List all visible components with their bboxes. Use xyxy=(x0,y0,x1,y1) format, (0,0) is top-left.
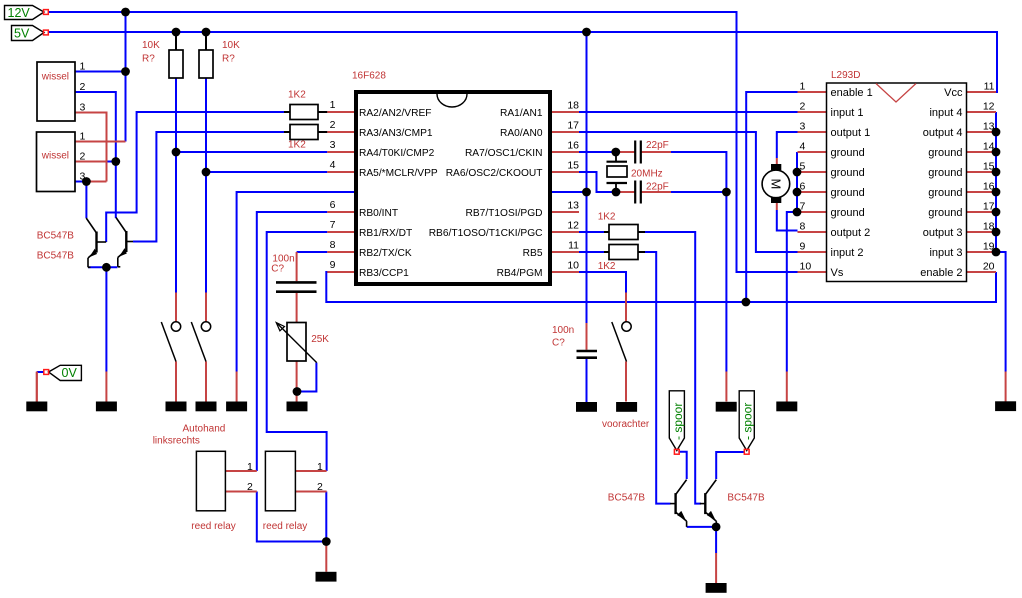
svg-text:4: 4 xyxy=(800,141,806,153)
svg-text:ground: ground xyxy=(928,167,962,179)
svg-text:RB6/T1OSO/T1CKI/PGC: RB6/T1OSO/T1CKI/PGC xyxy=(429,228,543,239)
svg-text:BC547B: BC547B xyxy=(727,493,765,504)
svg-text:output 4: output 4 xyxy=(923,127,963,139)
svg-text:16: 16 xyxy=(983,181,995,193)
svg-text:18: 18 xyxy=(983,221,995,233)
svg-text:RB3/CCP1: RB3/CCP1 xyxy=(359,268,409,279)
svg-text:C?: C? xyxy=(271,264,284,275)
svg-text:17: 17 xyxy=(983,201,995,213)
svg-text:17: 17 xyxy=(567,120,579,132)
svg-text:reed relay: reed relay xyxy=(263,521,307,532)
svg-text:output 1: output 1 xyxy=(831,127,871,139)
svg-text:- spoor: - spoor xyxy=(671,403,685,440)
svg-text:output 2: output 2 xyxy=(831,227,871,239)
svg-text:Autohand: Autohand xyxy=(183,424,226,435)
svg-text:ground: ground xyxy=(928,207,962,219)
svg-text:7: 7 xyxy=(800,201,806,213)
svg-text:19: 19 xyxy=(983,241,995,253)
svg-text:- spoor: - spoor xyxy=(741,403,755,440)
svg-text:15: 15 xyxy=(983,161,995,173)
svg-text:15: 15 xyxy=(567,160,579,172)
svg-text:1K2: 1K2 xyxy=(598,261,616,272)
svg-text:ground: ground xyxy=(831,187,865,199)
svg-text:2: 2 xyxy=(800,101,806,113)
svg-text:9: 9 xyxy=(330,259,336,271)
svg-text:22pF: 22pF xyxy=(646,140,669,151)
svg-text:linksrechts: linksrechts xyxy=(153,436,200,447)
svg-text:11: 11 xyxy=(984,81,995,93)
svg-text:10: 10 xyxy=(800,261,812,273)
svg-text:10K: 10K xyxy=(222,40,240,51)
svg-text:18: 18 xyxy=(567,100,579,112)
svg-text:20: 20 xyxy=(983,261,995,273)
svg-text:6: 6 xyxy=(800,181,806,193)
svg-text:ground: ground xyxy=(831,207,865,219)
svg-text:wissel: wissel xyxy=(41,72,69,83)
svg-text:ground: ground xyxy=(831,167,865,179)
svg-text:10: 10 xyxy=(567,260,579,272)
svg-text:5V: 5V xyxy=(14,26,30,40)
svg-text:10K: 10K xyxy=(142,40,160,51)
svg-text:BC547B: BC547B xyxy=(608,493,646,504)
svg-text:1: 1 xyxy=(330,99,336,111)
svg-text:0V: 0V xyxy=(62,366,78,380)
svg-text:8: 8 xyxy=(800,221,806,233)
svg-text:ground: ground xyxy=(831,147,865,159)
svg-text:2: 2 xyxy=(247,481,253,493)
svg-text:11: 11 xyxy=(568,240,579,252)
svg-text:100n: 100n xyxy=(552,325,574,336)
svg-text:12V: 12V xyxy=(8,6,31,20)
svg-text:Vcc: Vcc xyxy=(944,87,963,99)
svg-text:RB0/INT: RB0/INT xyxy=(359,208,398,219)
svg-text:L293D: L293D xyxy=(831,70,860,81)
svg-text:ground: ground xyxy=(928,187,962,199)
svg-text:ground: ground xyxy=(928,147,962,159)
svg-text:3: 3 xyxy=(80,102,86,114)
svg-text:M: M xyxy=(769,178,784,189)
svg-text:2: 2 xyxy=(80,81,86,93)
svg-text:25K: 25K xyxy=(311,334,329,345)
svg-text:5: 5 xyxy=(800,161,806,173)
svg-text:RB7/T1OSI/PGD: RB7/T1OSI/PGD xyxy=(466,208,543,219)
svg-text:R?: R? xyxy=(222,54,235,65)
svg-text:RB2/TX/CK: RB2/TX/CK xyxy=(359,248,412,259)
svg-text:RA1/AN1: RA1/AN1 xyxy=(500,108,543,119)
svg-text:enable 1: enable 1 xyxy=(831,87,873,99)
svg-text:2: 2 xyxy=(317,481,323,493)
svg-text:BC547B: BC547B xyxy=(37,251,75,262)
svg-text:BC547B: BC547B xyxy=(37,231,75,242)
svg-text:RA3/AN3/CMP1: RA3/AN3/CMP1 xyxy=(359,128,433,139)
svg-text:3: 3 xyxy=(80,171,86,183)
svg-text:1K2: 1K2 xyxy=(598,212,616,223)
svg-text:input 4: input 4 xyxy=(929,107,962,119)
svg-text:R?: R? xyxy=(142,54,155,65)
svg-text:RA6/OSC2/CKOOUT: RA6/OSC2/CKOOUT xyxy=(446,168,543,179)
svg-text:1K2: 1K2 xyxy=(288,140,306,151)
svg-text:14: 14 xyxy=(983,141,995,153)
svg-text:7: 7 xyxy=(330,219,336,231)
svg-text:RB1/RX/DT: RB1/RX/DT xyxy=(359,228,412,239)
svg-text:input 3: input 3 xyxy=(929,247,962,259)
svg-text:4: 4 xyxy=(330,159,336,171)
svg-text:2: 2 xyxy=(80,151,86,163)
svg-text:input 1: input 1 xyxy=(831,107,864,119)
svg-text:16F628: 16F628 xyxy=(352,71,386,82)
svg-text:2: 2 xyxy=(330,119,336,131)
svg-text:16: 16 xyxy=(567,140,579,152)
svg-text:RB5: RB5 xyxy=(523,248,543,259)
svg-text:12: 12 xyxy=(983,101,995,113)
svg-text:RA4/T0KI/CMP2: RA4/T0KI/CMP2 xyxy=(359,148,435,159)
svg-text:1: 1 xyxy=(317,461,323,473)
svg-text:1: 1 xyxy=(800,81,806,93)
svg-text:8: 8 xyxy=(330,239,336,251)
svg-text:wissel: wissel xyxy=(41,150,69,161)
svg-text:3: 3 xyxy=(330,139,336,151)
svg-text:1K2: 1K2 xyxy=(288,90,306,101)
svg-text:1: 1 xyxy=(80,131,86,143)
svg-text:Vs: Vs xyxy=(831,267,844,279)
svg-text:RA0/AN0: RA0/AN0 xyxy=(500,128,543,139)
svg-text:RB4/PGM: RB4/PGM xyxy=(497,268,543,279)
svg-text:RA5/*MCLR/VPP: RA5/*MCLR/VPP xyxy=(359,168,438,179)
svg-text:output 3: output 3 xyxy=(923,227,963,239)
svg-text:3: 3 xyxy=(800,121,806,133)
svg-text:1: 1 xyxy=(80,61,86,73)
svg-text:voorachter: voorachter xyxy=(602,419,650,430)
svg-text:RA2/AN2/VREF: RA2/AN2/VREF xyxy=(359,108,431,119)
svg-text:C?: C? xyxy=(552,338,565,349)
svg-text:reed relay: reed relay xyxy=(191,521,235,532)
svg-text:13: 13 xyxy=(567,200,579,212)
svg-text:6: 6 xyxy=(330,199,336,211)
svg-text:9: 9 xyxy=(800,241,806,253)
svg-text:input 2: input 2 xyxy=(831,247,864,259)
svg-text:1: 1 xyxy=(247,461,253,473)
svg-text:20MHz: 20MHz xyxy=(631,169,663,180)
svg-text:RA7/OSC1/CKIN: RA7/OSC1/CKIN xyxy=(465,148,543,159)
svg-text:12: 12 xyxy=(567,220,579,232)
svg-text:13: 13 xyxy=(983,121,995,133)
svg-text:enable 2: enable 2 xyxy=(920,267,962,279)
svg-text:22pF: 22pF xyxy=(646,182,669,193)
